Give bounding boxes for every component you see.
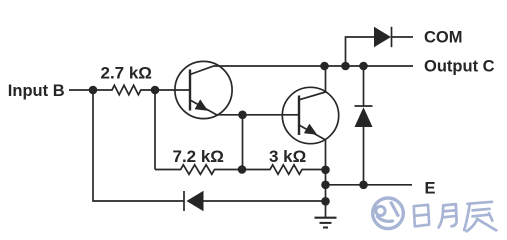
wire: Q2 collector up to Output C rail xyxy=(325,66,327,92)
node: Q2 emitter / R3 junction xyxy=(321,166,330,175)
diode D2 (input clamp, pointing left) xyxy=(184,191,326,211)
resistor R3 3 k ohm xyxy=(242,165,326,175)
transistor Q2 xyxy=(282,87,338,143)
watermark text: character RI (sun) xyxy=(414,205,429,227)
wire: base lead of Q1 xyxy=(155,89,190,91)
node: collector rail / Q2 collector xyxy=(320,62,329,71)
wire: Q1 emitter to node A xyxy=(217,114,243,116)
watermark text: character CHEN (dragon) xyxy=(464,202,496,232)
node: clamp diode / E rail xyxy=(359,181,368,190)
wire: Output C rail (Q1 collector to terminal) xyxy=(213,65,413,67)
node: E rail junction xyxy=(321,181,330,190)
node A: Q1 emitter / Q2 base / R2 junction xyxy=(238,111,247,120)
svg-text:E: E xyxy=(425,180,436,198)
watermark text: character YUE (moon) xyxy=(439,204,457,227)
svg-text:Output C: Output C xyxy=(424,57,495,75)
watermark logo circle xyxy=(373,198,404,229)
svg-text:3 kΩ: 3 kΩ xyxy=(269,147,306,166)
resistor R1 2.7 k ohm xyxy=(93,85,155,94)
transistor Q1 xyxy=(175,61,232,118)
svg-text:Input B: Input B xyxy=(8,82,65,100)
ground xyxy=(315,218,337,228)
wire: E rail xyxy=(326,184,413,186)
diode D1 to COM xyxy=(374,27,413,47)
wire: left pulldown vertical from Input junction xyxy=(93,90,184,201)
resistor R2 7.2 k ohm xyxy=(155,165,242,175)
node: collector rail / COM branch xyxy=(341,62,350,71)
diode D3 (clamp, E to C) xyxy=(355,106,373,185)
node: collector rail / clamp diode branch xyxy=(359,62,368,71)
wire: Input B lead xyxy=(69,89,93,91)
svg-text:7.2 kΩ: 7.2 kΩ xyxy=(173,147,224,166)
wire: clamp diode upper lead xyxy=(363,66,365,106)
node: R1/Q1 base junction xyxy=(151,86,160,95)
svg-text:COM: COM xyxy=(424,29,463,47)
node: bottom wire / ground leg junction xyxy=(321,197,330,206)
node B: R2 / R3 / Q1 emitter leg junction xyxy=(238,165,247,174)
svg-text:2.7 kΩ: 2.7 kΩ xyxy=(101,64,152,83)
node: Input B junction xyxy=(89,86,98,95)
wire: node A down to R2 xyxy=(242,115,244,170)
wire: R2 vertical from node at 2.7k xyxy=(154,90,156,170)
wire: node A to Q2 base xyxy=(243,114,300,116)
wire: Q2 emitter leg down xyxy=(325,140,327,218)
wire: COM branch riser xyxy=(346,37,375,66)
